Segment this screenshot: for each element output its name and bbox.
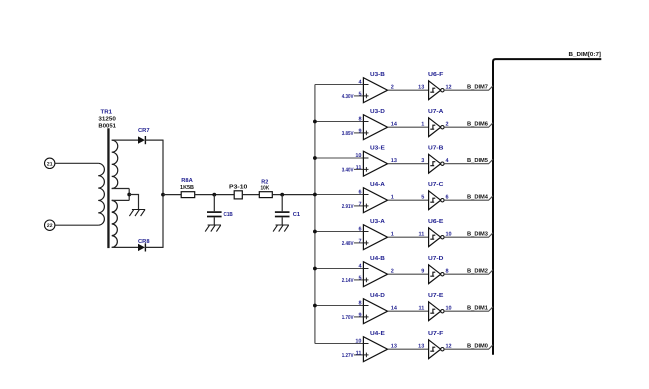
svg-text:U3-E: U3-E [370,145,385,152]
svg-text:1K5B: 1K5B [180,185,194,191]
ground (C1B) [205,225,221,232]
wire inverter output to bus (B_DIM1) [444,307,493,312]
wire inverter output to bus (B_DIM5) [444,159,493,164]
svg-text:U4-B: U4-B [370,256,385,262]
svg-text:22: 22 [47,223,53,229]
svg-text:CR7: CR7 [138,127,150,134]
wire inverter output to bus (B_DIM3) [444,233,493,238]
op-amp U4-B [363,262,387,287]
inverter U7-A [429,118,441,137]
node 3.85V reference stub [354,132,369,134]
svg-text:13: 13 [418,84,424,90]
bus B_DIM[0:7] [493,59,601,355]
wire P3-10 to R2 [242,194,259,196]
junction rail row 5 [313,156,317,160]
svg-text:11: 11 [356,350,362,356]
junction rail row 6 [313,120,317,124]
inverter U7-C [429,191,441,210]
row 1: wire bus to comparator U4-D inverting input [315,305,369,307]
svg-text:CR8: CR8 [138,238,150,245]
wire inverter output to bus (B_DIM7) [444,86,493,91]
junction rail row 3 [313,230,317,234]
svg-text:2.14V: 2.14V [342,278,354,284]
svg-text:B_DIM0: B_DIM0 [467,342,488,349]
svg-text:B_DIM4: B_DIM4 [467,194,489,200]
svg-text:U3-A: U3-A [370,218,386,225]
junction center tap [127,193,131,197]
svg-text:U6-F: U6-F [428,71,444,78]
inverter U7-B [429,154,441,173]
diode CR7 [138,136,145,143]
node 2.14V reference stub [354,279,369,281]
svg-text:2.91V: 2.91V [342,204,354,210]
resistor R2 [259,192,272,198]
junction rail row 4 [313,193,317,197]
row 4: wire bus to comparator U4-A inverting input [315,194,369,196]
wire R8A to C1B node [195,194,235,196]
node 2.91V reference stub [354,205,369,207]
row 0: wire bus to comparator U4-E inverting input [315,343,369,345]
svg-text:U7-B: U7-B [428,146,443,152]
row 5: wire bus to comparator U3-E inverting input [315,157,369,159]
svg-text:11: 11 [356,165,362,171]
row 7: wire bus to comparator U3-B inverting input [315,84,369,86]
diode CR8 [138,244,145,251]
wire comparator output to inverter U6-F [388,89,429,91]
row 2: wire bus to comparator U4-B inverting input [315,268,369,270]
wire terminal 22 to transformer primary [55,224,98,226]
wire input distribution rail [314,85,316,344]
node 3.40V reference stub [354,168,369,170]
svg-text:10: 10 [446,305,452,311]
svg-text:U6-E: U6-E [428,218,444,225]
op-amp U3-E [363,151,387,176]
svg-text:3.40V: 3.40V [342,167,354,173]
wire terminal 21 to transformer primary [55,162,98,164]
connector P3-10 [234,191,242,199]
junction C1B node [212,193,216,197]
svg-text:B_DIM1: B_DIM1 [467,305,489,311]
svg-text:B0051: B0051 [98,122,116,129]
row 3: wire bus to comparator U3-A inverting input [315,231,369,233]
svg-text:10K: 10K [261,184,270,191]
op-amp U3-A [363,225,387,250]
terminal 22 [45,220,55,230]
inverter U7-E [429,302,441,321]
svg-text:C1: C1 [293,211,301,218]
op-amp U4-D [363,299,387,324]
wire secondary top to CR7 [112,139,138,141]
junction rectifier output [161,193,165,197]
wire R2 to comparator bus [272,194,315,196]
svg-text:5: 5 [421,194,424,200]
svg-text:1.70V: 1.70V [342,315,354,321]
svg-text:R8A: R8A [181,177,193,184]
svg-text:U7-A: U7-A [428,109,444,115]
svg-text:31250: 31250 [98,116,116,123]
svg-text:U3-D: U3-D [370,108,385,115]
svg-text:U7-F: U7-F [428,331,444,337]
svg-text:U4-D: U4-D [370,293,385,299]
svg-text:6: 6 [358,226,361,232]
svg-text:1: 1 [421,121,424,127]
svg-text:7: 7 [358,238,361,244]
svg-text:5: 5 [358,91,361,97]
svg-text:13: 13 [391,343,397,349]
transformer TR1 core [107,128,109,248]
svg-text:B_DIM3: B_DIM3 [467,230,489,237]
svg-text:B_DIM[0:7]: B_DIM[0:7] [569,51,602,58]
node 1.70V reference stub [354,316,369,318]
svg-text:4.30V: 4.30V [342,94,354,100]
inverter U6-E [429,228,441,247]
svg-text:B_DIM5: B_DIM5 [467,158,489,164]
svg-text:7: 7 [358,201,361,207]
svg-text:21: 21 [47,161,53,167]
inverter U7-D [429,265,441,284]
svg-text:B_DIM6: B_DIM6 [467,120,489,127]
node 4.30V reference stub [354,95,369,97]
wire inverter output to bus (B_DIM6) [444,123,493,128]
svg-text:6: 6 [446,194,449,200]
wire CR8 to right rail [145,246,163,248]
svg-text:U7-C: U7-C [428,181,444,188]
wire comparator output to inverter U7-B [388,163,429,165]
svg-text:1: 1 [391,231,394,237]
op-amp U4-A [363,188,387,213]
terminal 21 [45,158,55,168]
resistor R8A [181,192,195,198]
inverter U7-F [429,340,441,359]
transformer TR1 primary winding [98,163,104,225]
ground (transformer center tap) [129,210,145,217]
svg-text:12: 12 [446,84,452,90]
op-amp U4-E [363,337,387,362]
svg-text:1: 1 [391,194,394,200]
svg-text:13: 13 [418,343,424,349]
wire comparator output to inverter U7-E [388,310,429,312]
svg-text:B_DIM7: B_DIM7 [467,84,488,90]
wire inverter output to bus (B_DIM0) [444,345,493,350]
transformer TR1 secondary bottom winding [112,200,118,247]
svg-text:U4-A: U4-A [370,182,386,188]
op-amp U3-D [363,115,387,140]
wire comparator output to inverter U6-E [388,236,429,238]
node 2.48V reference stub [354,242,369,244]
svg-text:9: 9 [358,128,361,134]
node 1.27V reference stub [354,354,369,356]
wire tap to ground [129,195,138,210]
wire inverter output to bus (B_DIM4) [444,196,493,201]
svg-text:2: 2 [391,268,394,274]
svg-text:10: 10 [446,231,452,237]
svg-text:6: 6 [358,189,361,195]
svg-text:U7-E: U7-E [428,293,444,299]
svg-text:5: 5 [358,275,361,281]
svg-text:C1B: C1B [224,211,233,218]
wire comparator output to inverter U7-A [388,126,429,128]
svg-text:11: 11 [418,231,424,237]
svg-text:2: 2 [446,121,449,127]
inverter U6-F [429,81,441,100]
wire secondary center tap [112,188,130,190]
capacitor C1B [213,195,215,212]
wire inverter output to bus (B_DIM2) [444,270,493,275]
svg-text:U3-B: U3-B [370,71,385,78]
capacitor C1 [281,195,283,212]
row 6: wire bus to comparator U3-D inverting input [315,121,369,123]
svg-text:9: 9 [358,312,361,318]
svg-text:TR1: TR1 [101,110,113,116]
svg-text:B_DIM2: B_DIM2 [467,267,488,274]
transformer TR1 secondary top winding [112,140,118,188]
svg-text:11: 11 [418,305,424,311]
wire rectifier output rail [162,140,164,248]
wire rail to R8A [163,194,181,196]
svg-text:10: 10 [355,153,361,159]
svg-text:1.27V: 1.27V [342,353,354,359]
junction rail row 2 [313,267,317,271]
wire comparator output to inverter U7-C [388,199,429,201]
svg-text:8: 8 [446,268,449,274]
svg-text:9: 9 [421,268,424,274]
svg-text:P3-10: P3-10 [229,183,247,190]
svg-text:12: 12 [446,343,452,349]
svg-text:14: 14 [391,305,398,311]
junction rail row 1 [313,304,317,308]
svg-text:14: 14 [391,121,398,127]
svg-text:3.85V: 3.85V [342,131,354,137]
op-amp U3-B [363,78,387,103]
svg-text:2: 2 [391,84,394,90]
svg-text:U4-E: U4-E [370,331,385,337]
junction C1 node [280,193,284,197]
svg-text:10: 10 [355,338,361,344]
wire comparator output to inverter U7-F [388,348,429,350]
svg-text:3: 3 [421,158,424,164]
wire comparator output to inverter U7-D [388,273,429,275]
svg-text:2.48V: 2.48V [342,241,354,247]
wire secondary bottom to CR8 [112,246,138,248]
svg-text:U7-D: U7-D [428,256,443,262]
svg-text:13: 13 [391,158,397,164]
wire CR7 to right rail [145,139,163,141]
svg-text:8: 8 [358,300,361,306]
ground (C1) [273,225,289,232]
svg-text:8: 8 [358,116,361,122]
